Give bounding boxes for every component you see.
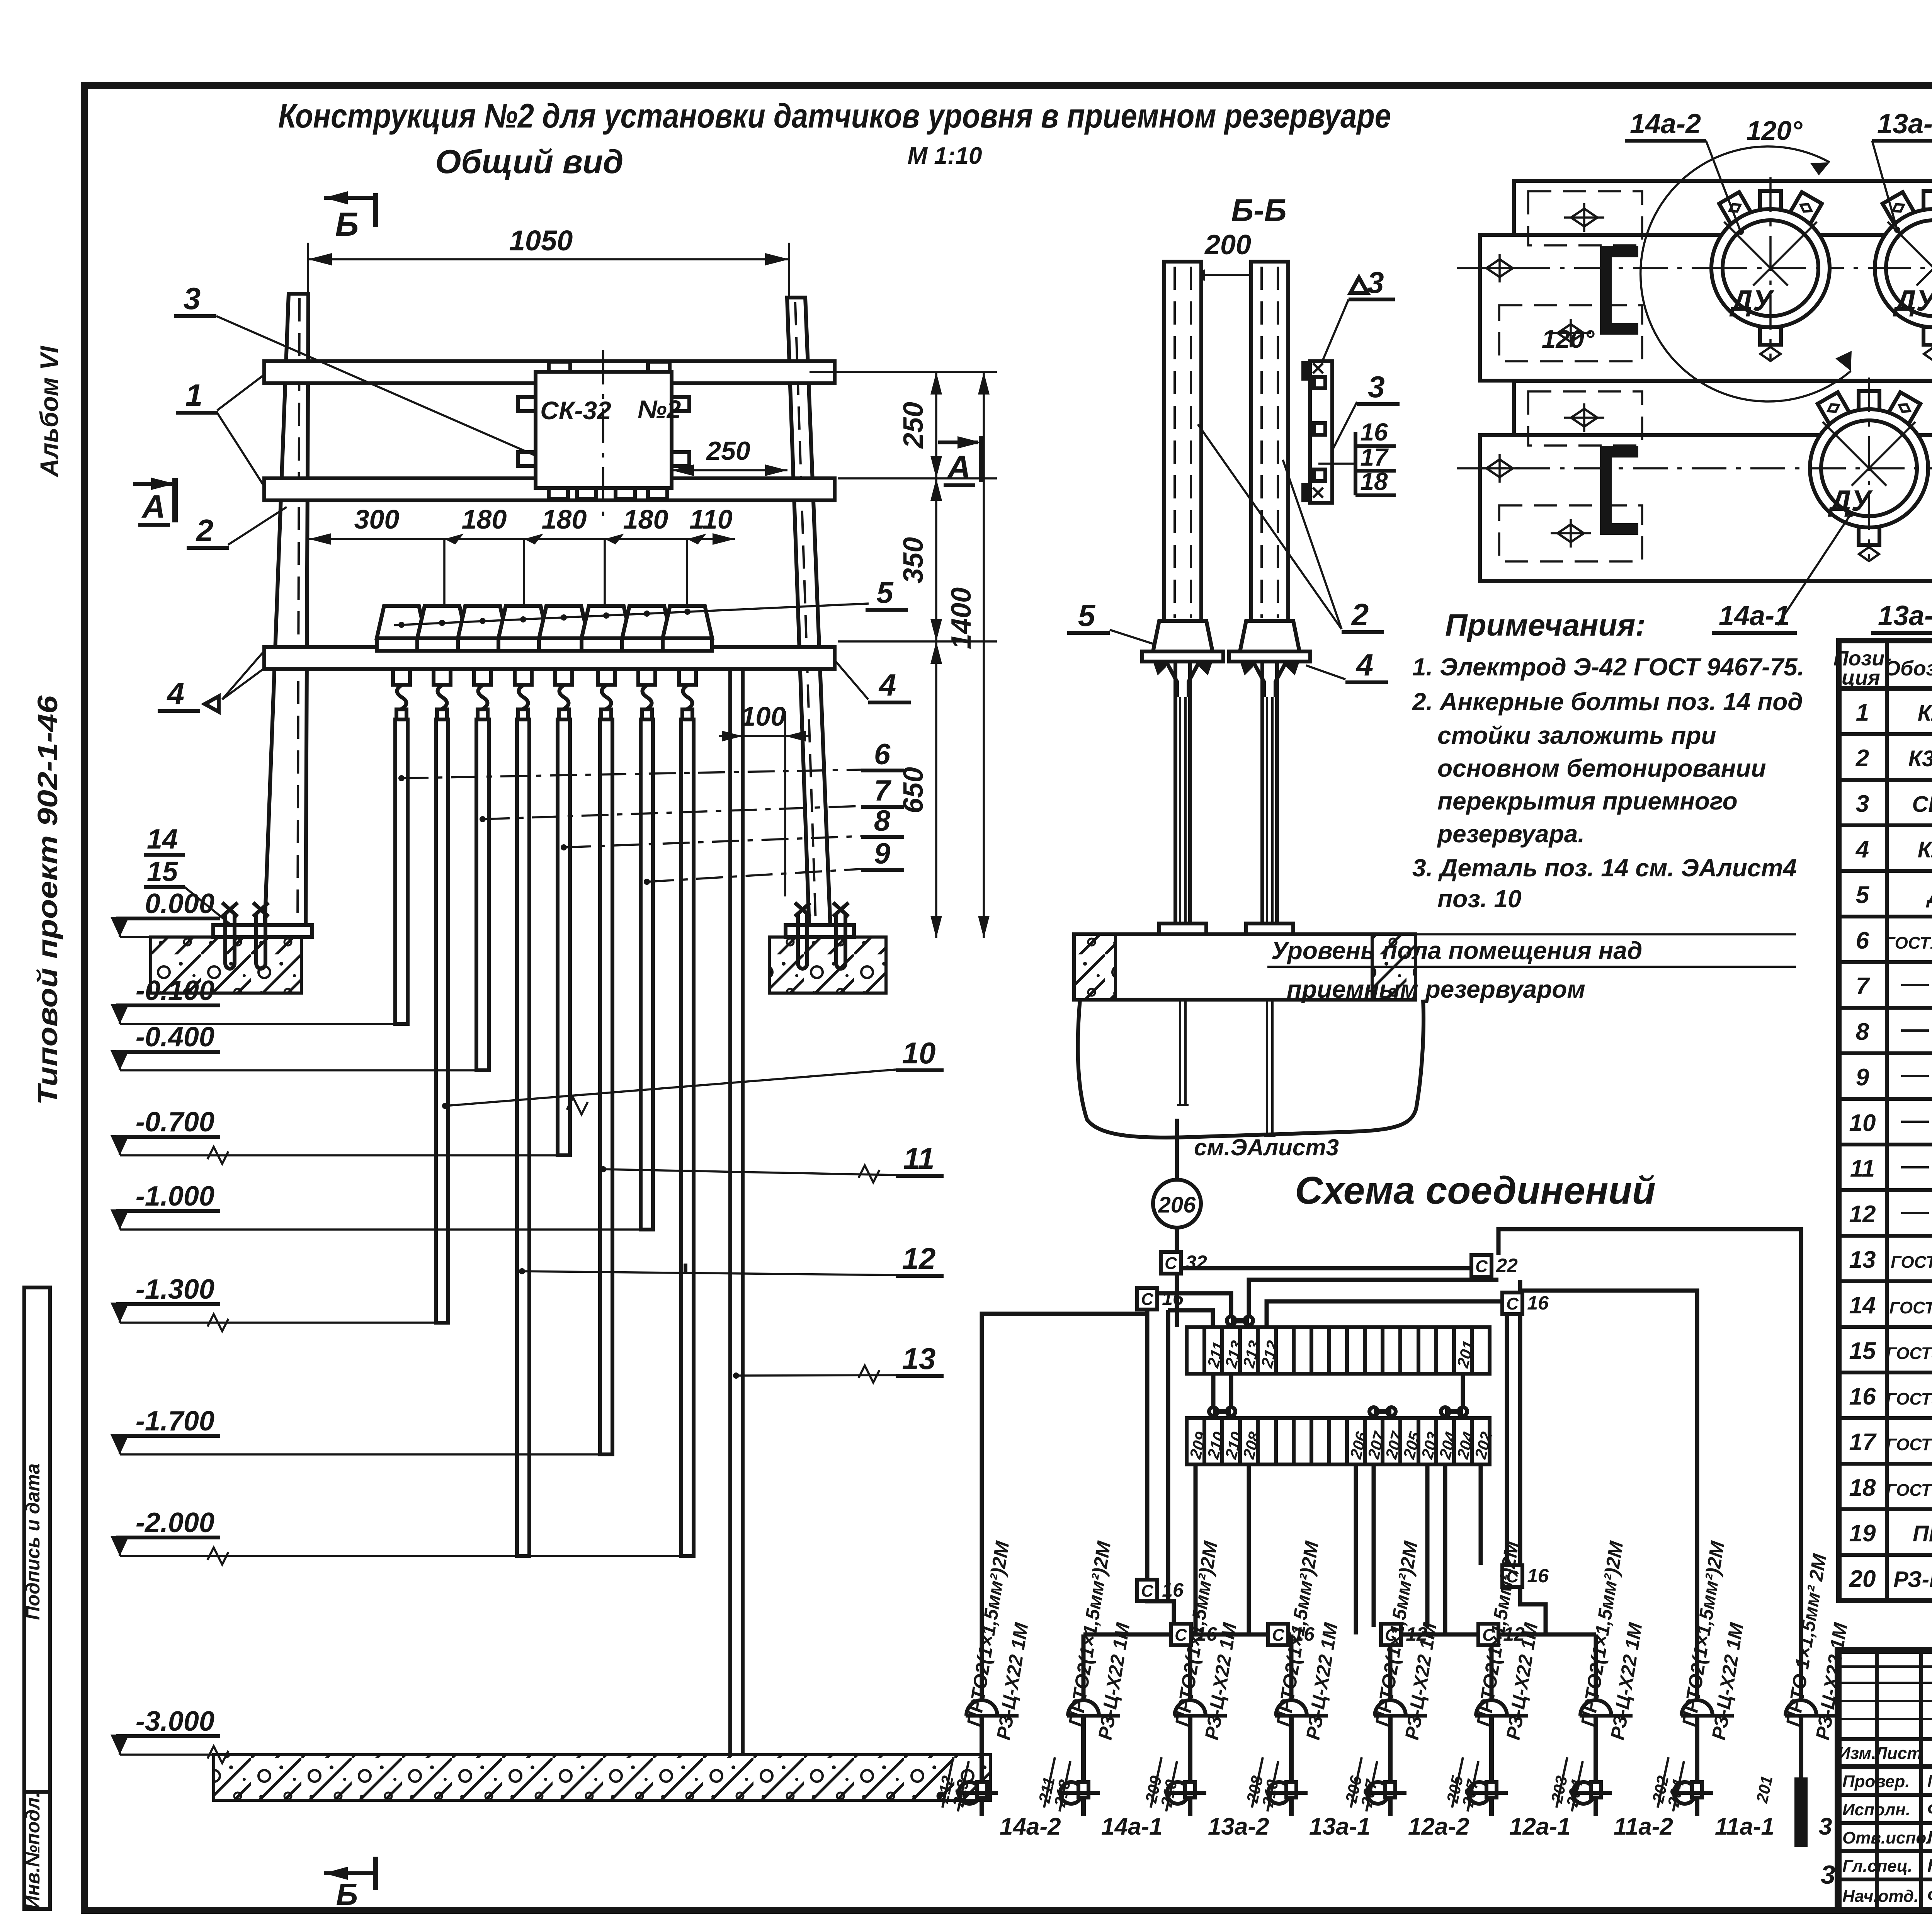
svg-text:16: 16	[1162, 1579, 1184, 1601]
svg-text:250: 250	[898, 402, 929, 449]
channel bracket left (black)	[1606, 252, 1638, 329]
hook and tube at x=1459	[555, 669, 572, 685]
svg-text:С: С	[1475, 1257, 1488, 1276]
drop 204t	[1443, 1464, 1447, 1634]
drop 207t	[1372, 1464, 1376, 1627]
svg-text:Нач.отд.: Нач.отд.	[1842, 1887, 1918, 1906]
electrode sensor 14а-1	[1068, 1700, 1099, 1716]
dimension 250 at box	[672, 469, 787, 471]
svg-text:-0.100: -0.100	[136, 975, 214, 1006]
svg-text:Подпись и дата: Подпись и дата	[22, 1463, 44, 1620]
svg-text:Казаров: Казаров	[1927, 1855, 1932, 1876]
svg-text:9: 9	[1856, 1064, 1869, 1091]
riser 12a-1	[1490, 1634, 1494, 1700]
svg-text:резервуара.: резервуара.	[1437, 820, 1585, 848]
break mark	[207, 1314, 228, 1331]
svg-text:18: 18	[1360, 468, 1388, 495]
title block outer frame	[1838, 1650, 1932, 1910]
riser 13a-2	[1188, 1634, 1192, 1700]
svg-text:А: А	[947, 449, 971, 485]
svg-text:12а-2: 12а-2	[1408, 1813, 1469, 1840]
stub to terminal 213	[1147, 1293, 1231, 1327]
svg-text:ГОСТ5915-70*: ГОСТ5915-70*	[1886, 1389, 1932, 1408]
svg-text:1: 1	[185, 378, 203, 412]
electrode tubes below column2	[1260, 662, 1264, 934]
jumper link	[1227, 1316, 1235, 1325]
svg-text:А: А	[141, 488, 166, 525]
svg-text:3: 3	[1819, 1813, 1832, 1840]
bottom rail 1	[1083, 1633, 1291, 1637]
svg-text:ДУ: ДУ	[1893, 284, 1932, 317]
svg-text:16: 16	[1849, 1383, 1876, 1410]
sensor caps row (pos 5)	[377, 575, 908, 651]
connector box С16	[1137, 1580, 1157, 1601]
riser 13a-1	[1289, 1634, 1294, 1700]
svg-text:22: 22	[1496, 1255, 1518, 1276]
svg-text:18: 18	[1849, 1475, 1876, 1501]
bottom step left	[1147, 1581, 1174, 1634]
inner rail upper right 2	[1267, 1301, 1507, 1327]
callout stack 16/17/18	[1354, 432, 1357, 495]
soil outline below slab	[1078, 1000, 1423, 1138]
left frame wire outer	[1145, 1293, 1150, 1581]
svg-text:14: 14	[1849, 1292, 1876, 1319]
drop 209	[1194, 1464, 1198, 1634]
svg-text:1: 1	[1856, 699, 1869, 726]
sidebar stamp box	[24, 1287, 50, 1909]
svg-text:6: 6	[1856, 927, 1869, 954]
svg-text:1. Электрод Э-42 ГОСТ 9467-75: 1. Электрод Э-42 ГОСТ 9467-75.	[1412, 653, 1804, 681]
svg-text:13: 13	[902, 1342, 936, 1376]
right vertical dimension chain 250/350/650	[810, 371, 997, 373]
base plate left	[213, 925, 312, 937]
svg-text:13а-1: 13а-1	[1878, 600, 1932, 631]
svg-text:Лист: Лист	[1874, 1744, 1922, 1763]
wire sensor 11a-2 riser	[1520, 1291, 1697, 1700]
svg-text:С: С	[1272, 1626, 1285, 1645]
svg-text:7: 7	[874, 774, 892, 807]
hook and tube at x=1249	[474, 669, 491, 685]
bolt diamonds	[1571, 409, 1597, 427]
svg-text:ГОСТ2590-71: ГОСТ2590-71	[1889, 1298, 1932, 1317]
svg-text:14: 14	[147, 824, 178, 855]
svg-text:Провер.: Провер.	[1842, 1772, 1910, 1791]
svg-text:12а-1: 12а-1	[1509, 1813, 1571, 1840]
svg-text:-1.000: -1.000	[136, 1181, 214, 1212]
electrode sensor 12а-1	[1476, 1700, 1507, 1716]
svg-text:СК-32: СК-32	[540, 396, 611, 425]
svg-text:10: 10	[902, 1036, 936, 1070]
svg-text:3: 3	[184, 281, 201, 316]
svg-text:9: 9	[874, 837, 890, 870]
signature rows	[1838, 1793, 1932, 1797]
svg-text:РЗ-Ц-Х22: РЗ-Ц-Х22	[1893, 1567, 1932, 1592]
svg-text:180: 180	[462, 504, 507, 534]
svg-text:ция: ция	[1842, 666, 1880, 689]
svg-text:13а-2: 13а-2	[1877, 109, 1932, 139]
svg-text:200: 200	[1204, 230, 1251, 260]
leader line for label 5 through caps	[394, 604, 869, 625]
dimension 1050	[307, 243, 309, 301]
svg-text:К238: К238	[1918, 701, 1932, 726]
left frame wire inner	[1166, 1310, 1170, 1601]
jumper link	[1369, 1407, 1378, 1416]
svg-text:С: С	[1165, 1254, 1177, 1273]
drop 203t	[1425, 1464, 1430, 1627]
base plate right	[786, 925, 854, 937]
svg-text:13а-2: 13а-2	[1208, 1813, 1269, 1840]
connector box С16	[1171, 1624, 1191, 1645]
svg-text:3: 3	[1368, 370, 1384, 404]
svg-text:4: 4	[167, 676, 185, 711]
svg-text:3: 3	[1821, 1860, 1835, 1889]
svg-text:приемным резервуаром: приемным резервуаром	[1287, 975, 1585, 1003]
dimension 100 at strip	[784, 711, 786, 896]
svg-text:12: 12	[1849, 1201, 1876, 1228]
svg-text:Фролов: Фролов	[1927, 1886, 1932, 1906]
channel bracket left (black)	[1606, 452, 1638, 529]
riser 14a-1	[1082, 1634, 1086, 1700]
node 206 circle	[1153, 1180, 1201, 1228]
parts table grid	[1839, 641, 1932, 1600]
svg-text:3: 3	[1856, 791, 1869, 817]
break mark	[207, 1746, 228, 1763]
wire from 206 to strip	[1175, 1228, 1179, 1327]
bottom step right	[1520, 1582, 1596, 1634]
section marker Б top	[324, 191, 348, 204]
floor slab section	[1074, 934, 1415, 1000]
svg-text:32: 32	[1185, 1252, 1207, 1273]
svg-text:4: 4	[878, 668, 896, 702]
svg-text:Типовой проект 902-1-46: Типовой проект 902-1-46	[32, 695, 63, 1105]
electrode sensor 12а-2	[1375, 1700, 1406, 1716]
svg-text:15: 15	[147, 856, 178, 887]
terminal strip lower	[1187, 1418, 1490, 1464]
mounting plate pos 3	[1310, 361, 1332, 503]
svg-text:ГОСТ6402-70*: ГОСТ6402-70*	[1886, 1435, 1932, 1454]
svg-text:ГОСТ10704-76: ГОСТ10704-76	[1884, 934, 1932, 952]
callout labels left	[144, 281, 944, 1379]
connector box С16	[1137, 1288, 1157, 1310]
svg-text:С: С	[1141, 1290, 1154, 1309]
svg-text:1050: 1050	[509, 224, 573, 257]
title block vertical dividers left section	[1875, 1650, 1879, 1910]
bolt diamonds	[1571, 209, 1597, 226]
svg-text:-3.000: -3.000	[136, 1706, 214, 1737]
svg-text:-0.400: -0.400	[136, 1022, 214, 1053]
sensor cap collar column2	[1240, 621, 1299, 651]
svg-text:Изм.: Изм.	[1838, 1744, 1876, 1763]
electrode tubes below column1	[1173, 662, 1177, 934]
drop 208	[1247, 1464, 1251, 1634]
electrode sensor 13а-1	[1276, 1700, 1307, 1716]
hook and tube at x=1039	[393, 669, 410, 685]
electrode sensor 13а-2	[1175, 1700, 1206, 1716]
profile bar upper	[1514, 381, 1932, 501]
svg-text:8: 8	[874, 804, 891, 837]
hook and tube at x=1144	[434, 669, 451, 685]
connector box С16	[1502, 1565, 1522, 1587]
break mark	[859, 1165, 879, 1182]
svg-text:основном бетонировании: основном бетонировании	[1437, 754, 1766, 782]
footing left	[151, 937, 301, 993]
svg-text:206: 206	[1158, 1192, 1196, 1218]
svg-text:13а-1: 13а-1	[1309, 1813, 1371, 1840]
bottom rail 2	[1390, 1633, 1596, 1637]
break mark	[207, 1147, 228, 1164]
connector box С32	[1161, 1252, 1181, 1274]
svg-text:Б: Б	[335, 206, 359, 243]
footing right	[769, 937, 886, 993]
dimension 1400	[983, 372, 985, 938]
section marker А left	[172, 478, 178, 522]
interstrip wire b	[1229, 1373, 1233, 1418]
svg-text:20: 20	[1849, 1566, 1876, 1592]
svg-text:Уровень пола помещения над: Уровень пола помещения над	[1271, 937, 1642, 964]
svg-text:3. Деталь поз. 14 см. ЭАлист4: 3. Деталь поз. 14 см. ЭАлист4	[1412, 854, 1797, 882]
svg-text:17: 17	[1849, 1429, 1877, 1456]
level line floor top	[1415, 933, 1796, 935]
connector box С16	[1268, 1624, 1288, 1645]
svg-text:11: 11	[1850, 1155, 1875, 1182]
centreline	[1457, 267, 1932, 269]
svg-text:16: 16	[1360, 418, 1388, 446]
svg-text:4: 4	[1855, 836, 1869, 863]
svg-text:1400: 1400	[946, 587, 977, 649]
svg-text:19: 19	[1849, 1520, 1876, 1547]
jumper link	[1209, 1407, 1218, 1416]
inner rail upper right 1	[1249, 1280, 1498, 1327]
level sensor ДУ at 4582,694	[1760, 191, 1781, 209]
svg-text:5: 5	[876, 575, 894, 609]
dimension chain 300 180 180 180 110	[309, 538, 735, 540]
drop 202t	[1479, 1464, 1483, 1565]
svg-text:Б: Б	[336, 1877, 358, 1912]
svg-text:180: 180	[542, 504, 587, 534]
svg-text:Конструкция №2 для установки: Конструкция №2 для установки датчиков ур…	[278, 97, 1391, 135]
electrode sensor 3	[1786, 1700, 1816, 1716]
svg-text:см.ЭАлист3: см.ЭАлист3	[1194, 1134, 1339, 1160]
svg-text:11а-1: 11а-1	[1715, 1813, 1774, 1840]
connector box С12	[1381, 1624, 1401, 1645]
svg-text:ГОСТ103-57*: ГОСТ103-57*	[1891, 1253, 1932, 1272]
svg-text:16: 16	[1162, 1287, 1184, 1309]
svg-text:13: 13	[1849, 1247, 1876, 1273]
svg-text:120°: 120°	[1747, 116, 1803, 146]
anchor bolts right	[798, 913, 807, 969]
svg-text:Альбом VI: Альбом VI	[35, 345, 63, 478]
section marker А right	[979, 436, 984, 482]
right frame wire outer	[1505, 1301, 1509, 1567]
level sensor ДУ at 4837,1212	[1859, 391, 1879, 410]
terminal strip upper	[1187, 1327, 1490, 1374]
riser 12a-2	[1388, 1634, 1393, 1700]
rail to sensor 11a-1	[1498, 1229, 1801, 1700]
svg-text:Отв.испол.: Отв.испол.	[1842, 1828, 1932, 1847]
profile bar lower	[1480, 435, 1932, 581]
svg-text:Примечания:: Примечания:	[1445, 608, 1646, 642]
anchor bolts left	[225, 913, 235, 969]
svg-text:Фокина: Фокина	[1927, 1799, 1932, 1819]
svg-text:стойки заложить при: стойки заложить при	[1437, 721, 1716, 749]
svg-text:2: 2	[1855, 745, 1869, 772]
wire sensor 14a-2 riser	[982, 1314, 1147, 1700]
profile bar lower	[1480, 235, 1932, 381]
projection lines to sensors	[443, 539, 446, 606]
svg-text:11: 11	[903, 1141, 935, 1175]
svg-text:поз. 10: поз. 10	[1437, 885, 1522, 913]
svg-text:ГОСТ5915-70*: ГОСТ5915-70*	[1886, 1344, 1932, 1363]
svg-text:180: 180	[623, 504, 668, 534]
electrode sensor 11а-2	[1580, 1700, 1611, 1716]
svg-text:11а-2: 11а-2	[1614, 1813, 1673, 1840]
svg-text:16: 16	[1527, 1292, 1549, 1314]
svg-text:-1.700: -1.700	[136, 1406, 214, 1437]
electrode sensor 11а-1	[1682, 1700, 1713, 1716]
svg-text:Инв.№подл.: Инв.№подл.	[22, 1792, 44, 1910]
svg-text:2: 2	[1351, 597, 1369, 632]
beam 3 (pos 4 profile)	[264, 647, 835, 669]
level marks	[111, 888, 681, 1755]
drop 206t	[1354, 1464, 1358, 1634]
svg-text:14а-1: 14а-1	[1101, 1813, 1163, 1840]
svg-text:Б-Б: Б-Б	[1231, 193, 1286, 228]
floor slab bottom	[214, 1755, 990, 1800]
svg-text:5: 5	[1078, 598, 1096, 633]
svg-text:К236: К236	[1918, 837, 1932, 862]
svg-text:Пономарева: Пономарева	[1927, 1827, 1932, 1847]
section marker Б bottom	[324, 1867, 348, 1880]
svg-text:14а-2: 14а-2	[1630, 109, 1701, 139]
svg-text:Общий вид: Общий вид	[435, 143, 623, 180]
level sensor ДУ at 5005,694	[1923, 191, 1932, 209]
120 degree arc	[1641, 146, 1851, 401]
stand column 2 in section	[1251, 262, 1288, 621]
svg-text:-1.300: -1.300	[136, 1274, 214, 1305]
connector box С12	[1478, 1624, 1498, 1645]
svg-text:14а-2: 14а-2	[1000, 1813, 1061, 1840]
svg-text:8: 8	[1856, 1019, 1869, 1045]
svg-text:14а-1: 14а-1	[1719, 600, 1790, 631]
svg-text:-0.700: -0.700	[136, 1107, 214, 1138]
svg-text:2. Анкерные болты поз. 14 по: 2. Анкерные болты поз. 14 под	[1412, 688, 1803, 716]
svg-text:СК-32: СК-32	[1912, 792, 1932, 817]
svg-text:-2.000: -2.000	[136, 1507, 214, 1538]
break mark	[207, 1548, 228, 1565]
svg-text:12: 12	[902, 1242, 936, 1276]
centreline	[1457, 467, 1932, 469]
beam 1 (pos 1 profile)	[264, 361, 835, 383]
hook and tube at x=1569	[598, 669, 615, 685]
svg-text:Гл.спец.: Гл.спец.	[1842, 1857, 1912, 1876]
strip pos 13	[730, 669, 743, 1755]
svg-text:ДУ: ДУ	[1729, 284, 1775, 317]
profile bar upper	[1514, 181, 1932, 301]
small revision rows	[1838, 1665, 1932, 1668]
svg-text:Схема соединений: Схема соединений	[1295, 1169, 1655, 1212]
svg-text:17: 17	[1360, 443, 1389, 471]
svg-text:300: 300	[354, 504, 400, 534]
svg-text:10: 10	[1849, 1110, 1876, 1136]
svg-text:Мизяк: Мизяк	[1927, 1771, 1932, 1791]
dashed hole outlines left	[1528, 391, 1642, 446]
junction box СК-32 №2 (pos 3)	[518, 397, 536, 411]
riser 11a-2b	[1594, 1634, 1598, 1700]
beam 2 (pos 1 profile)	[264, 478, 835, 500]
callout Δ3	[1350, 277, 1367, 293]
svg-text:250: 250	[706, 436, 750, 466]
dashed hole outlines left	[1528, 191, 1642, 245]
hook and tube at x=1674	[638, 669, 655, 685]
svg-text:120°: 120°	[1542, 325, 1595, 353]
break mark	[859, 1366, 879, 1383]
electrode sensor 14а-2	[966, 1700, 997, 1716]
svg-text:С: С	[1506, 1294, 1519, 1313]
sensor cap collar column1	[1153, 621, 1213, 651]
svg-text:5: 5	[1856, 882, 1870, 908]
svg-text:7: 7	[1856, 973, 1870, 1000]
hook and tube at x=1354	[515, 669, 532, 685]
svg-text:М 1:10: М 1:10	[908, 143, 982, 169]
column stand right (pos 2)	[787, 298, 831, 937]
svg-text:перекрытия приемного: перекрытия приемного	[1437, 787, 1738, 815]
svg-text:100: 100	[741, 701, 786, 731]
interstrip wire a	[1211, 1373, 1216, 1418]
break mark	[567, 1097, 588, 1114]
connector box С22	[1471, 1255, 1492, 1277]
svg-text:350: 350	[898, 537, 929, 583]
svg-text:3: 3	[1367, 265, 1384, 299]
interstrip wire c	[1461, 1373, 1465, 1418]
hooks and electrode tubes	[393, 669, 696, 1556]
svg-text:Обозначен.: Обозначен.	[1884, 657, 1932, 680]
connector box С16	[1502, 1293, 1522, 1314]
svg-text:110: 110	[689, 504, 733, 534]
svg-text:2: 2	[196, 513, 214, 548]
right frame wire inner	[1518, 1280, 1522, 1582]
hook and tube at x=1779	[679, 669, 696, 685]
column stand left (pos 2)	[264, 294, 308, 937]
svg-text:6: 6	[874, 738, 891, 771]
stub to terminal 211	[1168, 1310, 1213, 1327]
see sheet note	[1175, 1119, 1179, 1180]
svg-text:№2: №2	[638, 395, 681, 423]
svg-text:16: 16	[1527, 1565, 1549, 1587]
top rail C32-C22	[1179, 1266, 1478, 1270]
base plates on slab	[1159, 923, 1206, 934]
svg-text:ПРТО: ПРТО	[1913, 1521, 1932, 1546]
svg-text:4: 4	[1355, 648, 1374, 682]
jumper link	[1441, 1407, 1449, 1416]
svg-text:Исполн.: Исполн.	[1842, 1800, 1910, 1819]
svg-text:К310М: К310М	[1908, 746, 1932, 771]
header row line	[1838, 1764, 1932, 1769]
stand column 1 in section	[1164, 262, 1201, 621]
svg-text:С: С	[1141, 1582, 1154, 1600]
svg-text:ГОСТ7798-70*: ГОСТ7798-70*	[1886, 1481, 1932, 1500]
svg-text:15: 15	[1849, 1338, 1876, 1364]
